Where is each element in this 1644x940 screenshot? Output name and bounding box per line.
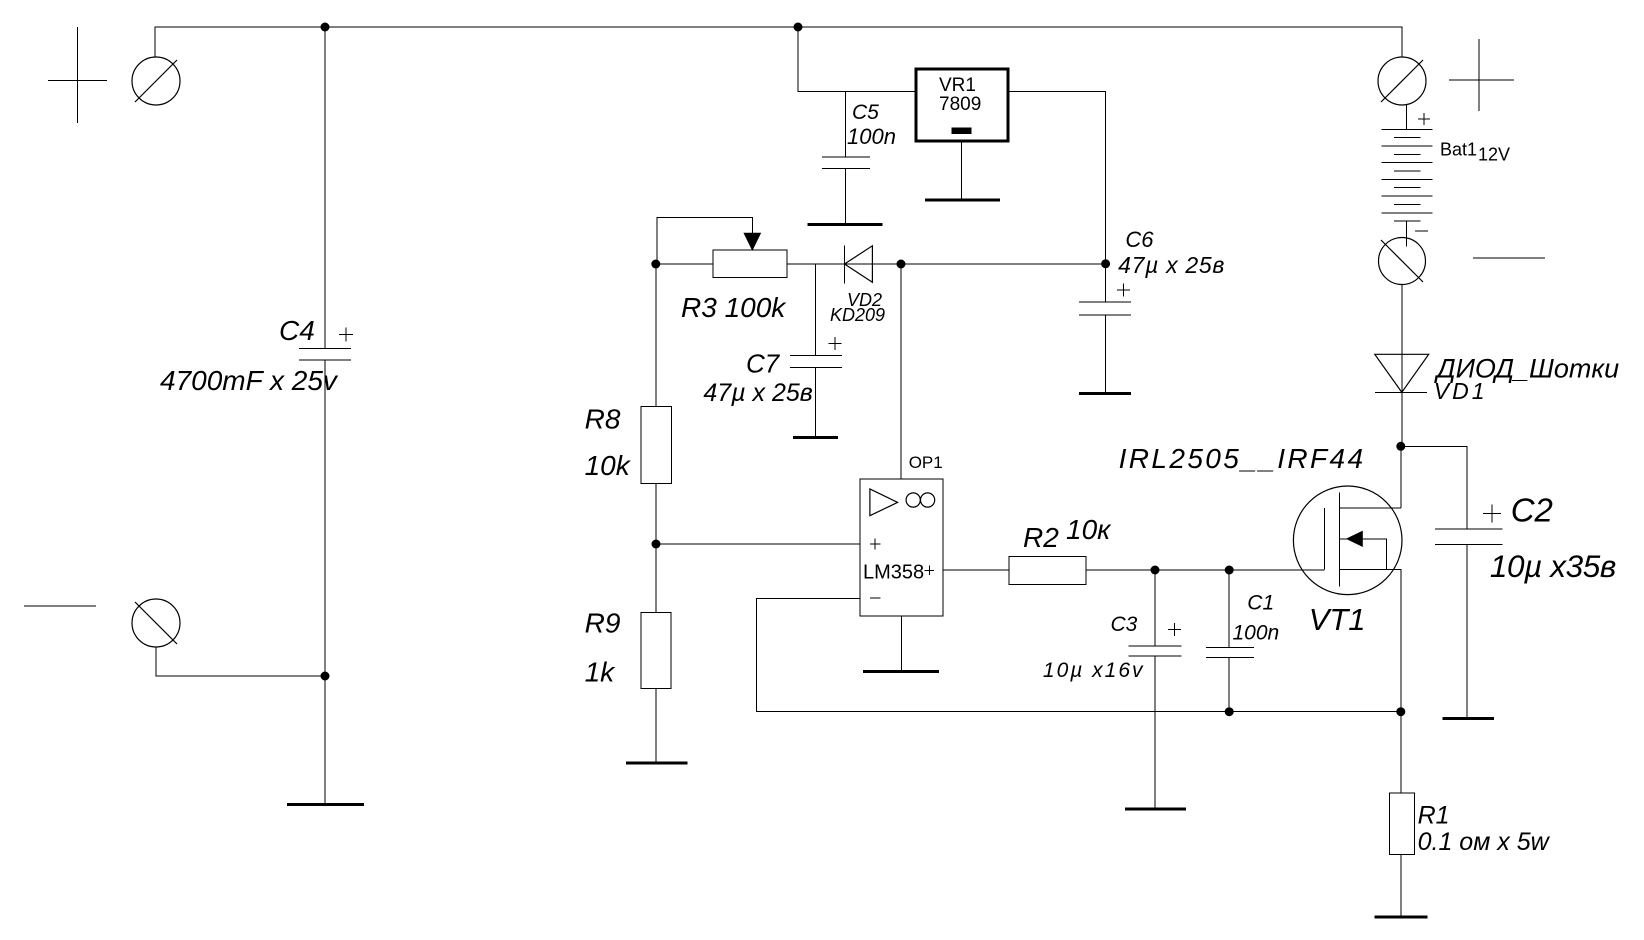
svg-text:C7: C7 bbox=[746, 349, 781, 379]
svg-text:47µ x 25в: 47µ x 25в bbox=[1118, 252, 1225, 278]
svg-text:12V: 12V bbox=[1478, 145, 1510, 165]
svg-text:IRL2505__IRF44: IRL2505__IRF44 bbox=[1119, 443, 1366, 474]
svg-text:7809: 7809 bbox=[939, 94, 981, 115]
svg-text:C6: C6 bbox=[1125, 227, 1154, 252]
svg-text:KD209: KD209 bbox=[830, 305, 885, 325]
svg-text:C2: C2 bbox=[1511, 492, 1553, 529]
svg-text:100n: 100n bbox=[1233, 621, 1280, 644]
svg-text:C4: C4 bbox=[279, 315, 315, 346]
svg-text:10µ x16v: 10µ x16v bbox=[1043, 659, 1145, 682]
svg-text:LM358: LM358 bbox=[863, 561, 924, 583]
svg-text:VR1: VR1 bbox=[939, 75, 976, 96]
svg-text:R9: R9 bbox=[585, 608, 621, 639]
svg-text:VT1: VT1 bbox=[1309, 602, 1366, 637]
svg-text:Bat1: Bat1 bbox=[1440, 140, 1477, 160]
svg-text:47µ x 25в: 47µ x 25в bbox=[703, 379, 812, 407]
svg-text:C1: C1 bbox=[1247, 592, 1274, 615]
svg-text:10к: 10к bbox=[1066, 514, 1112, 545]
svg-text:0.1 ом x 5w: 0.1 ом x 5w bbox=[1418, 828, 1551, 856]
svg-text:100n: 100n bbox=[847, 124, 896, 149]
svg-text:R3 100k: R3 100k bbox=[681, 292, 787, 323]
svg-text:R2: R2 bbox=[1023, 522, 1059, 553]
svg-text:VD1: VD1 bbox=[1434, 378, 1488, 404]
svg-text:4700mF x 25v: 4700mF x 25v bbox=[160, 365, 339, 396]
svg-text:R8: R8 bbox=[585, 403, 621, 434]
svg-text:1k: 1k bbox=[585, 657, 617, 688]
svg-text:OP1: OP1 bbox=[909, 453, 943, 472]
svg-text:10k: 10k bbox=[585, 450, 632, 481]
svg-text:R1: R1 bbox=[1418, 802, 1450, 830]
svg-text:10µ x35в: 10µ x35в bbox=[1490, 548, 1616, 584]
svg-text:C5: C5 bbox=[852, 101, 879, 124]
svg-text:C3: C3 bbox=[1111, 613, 1138, 636]
